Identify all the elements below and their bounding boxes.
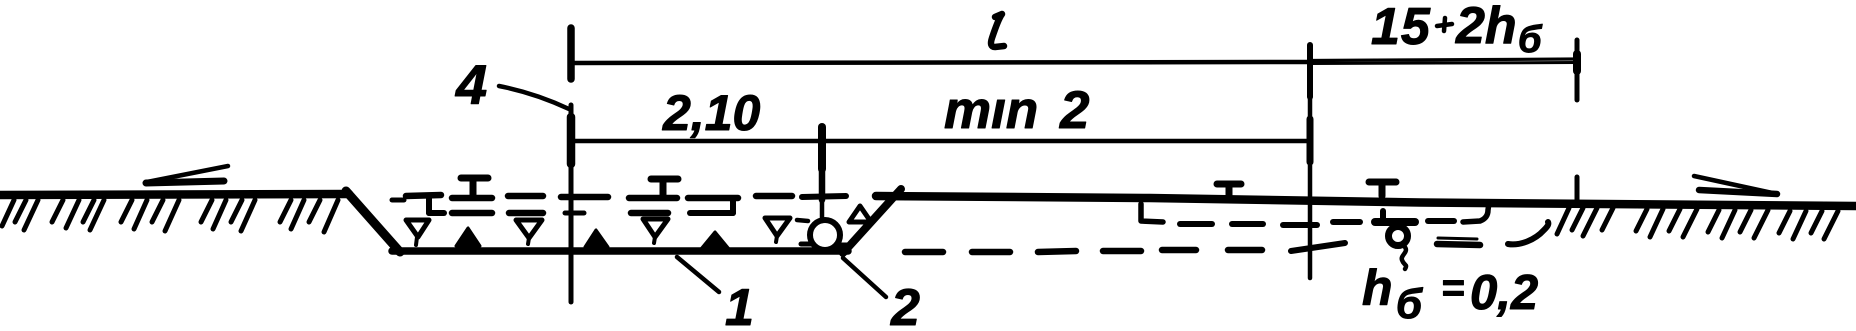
filled triangle 2 xyxy=(585,230,608,247)
left travel arrow xyxy=(146,166,228,183)
left ground line xyxy=(0,194,349,195)
svg-text:2: 2 xyxy=(1059,81,1089,140)
label 2,10 xyxy=(662,85,761,141)
dimension line 2,10 min2 xyxy=(573,139,1310,144)
trench bracket 1 xyxy=(406,195,444,213)
centerline xyxy=(569,105,574,302)
rail symbol 3 xyxy=(1217,184,1241,197)
extension line at 822 xyxy=(802,168,846,221)
lower dashed line xyxy=(905,238,1480,252)
drain circle xyxy=(801,220,850,250)
open triangle 3 xyxy=(643,219,668,243)
trench dash a0 xyxy=(392,198,404,203)
small open triangle on slope xyxy=(849,206,871,222)
right slope xyxy=(843,189,901,253)
svg-text:0,2: 0,2 xyxy=(1470,266,1538,320)
rail symbol 4 xyxy=(1369,182,1396,196)
tick centerline top xyxy=(567,28,575,79)
tick 822 on dim 2,10 xyxy=(818,127,826,169)
extension line at 1310 xyxy=(1291,97,1345,278)
rail symbol 2 xyxy=(629,179,678,213)
leader for 2 xyxy=(843,258,886,297)
label 15+2hb xyxy=(1371,0,1543,61)
tick 1577 at ground xyxy=(1575,177,1580,205)
svg-text:б: б xyxy=(1518,19,1543,61)
trench bracket 2 xyxy=(688,198,738,213)
filled triangle 1 xyxy=(456,228,480,246)
trench dash at centerline xyxy=(561,197,608,213)
svg-text:1: 1 xyxy=(725,279,754,331)
hb squiggle marker xyxy=(1375,211,1415,269)
svg-text:4: 4 xyxy=(455,53,487,116)
label l xyxy=(991,14,1004,47)
svg-text:h: h xyxy=(1362,260,1393,316)
right ground line xyxy=(876,196,1856,206)
left slope xyxy=(346,191,400,252)
open triangle 1 xyxy=(406,220,429,245)
trench dash 4 xyxy=(797,220,808,221)
trench dash pair 2 xyxy=(508,196,543,213)
berm dashed top row xyxy=(1180,221,1454,225)
svg-text:=: = xyxy=(1441,266,1464,310)
tick 1577 on dim 15+2hb xyxy=(1575,40,1580,100)
label hb = 0,2 xyxy=(1362,260,1538,327)
label min 2 xyxy=(944,81,1089,140)
berm dashed top hook right xyxy=(1463,203,1489,222)
svg-text:15: 15 xyxy=(1371,0,1431,56)
open triangle 4 xyxy=(765,218,790,242)
label 2 xyxy=(890,279,920,331)
filled triangle 3 xyxy=(701,232,729,249)
svg-text:2: 2 xyxy=(890,279,920,331)
tick 1310 on dim min2 xyxy=(1307,119,1314,162)
svg-text:б: б xyxy=(1396,280,1423,327)
leader for 1 xyxy=(677,257,719,292)
rail symbol 1 xyxy=(452,178,492,213)
svg-text:2h: 2h xyxy=(1455,0,1517,55)
right travel arrow xyxy=(1694,176,1777,194)
berm dashed top hook left xyxy=(1141,204,1163,222)
lower dashed line end curl xyxy=(1508,222,1548,244)
tick 1310 on dim l xyxy=(1307,45,1313,97)
left hatching xyxy=(2,200,338,232)
dimension line l xyxy=(573,62,1310,63)
svg-text:2,10: 2,10 xyxy=(662,85,761,141)
svg-text:mın: mın xyxy=(944,81,1038,140)
trench dash 3 xyxy=(756,193,792,200)
dimension line 15+2hb xyxy=(1310,59,1577,64)
right hatching xyxy=(1557,208,1838,239)
open triangle 2 xyxy=(516,220,542,244)
label 1 xyxy=(725,279,754,331)
label 4 xyxy=(455,53,487,116)
leader for 4 xyxy=(499,86,569,109)
trench bottom xyxy=(392,247,848,255)
